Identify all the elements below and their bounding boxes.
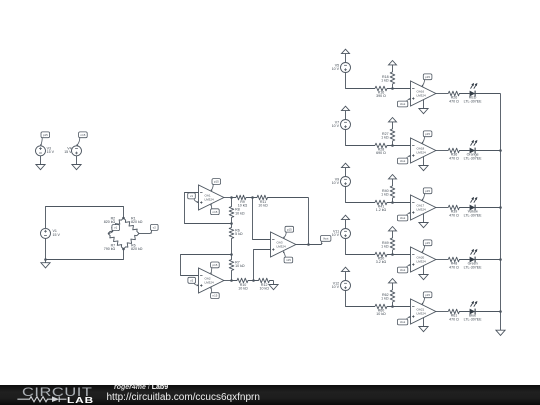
- resistor R50 channel 4: [375, 252, 393, 257]
- svg-text:Vout: Vout: [323, 237, 329, 241]
- svg-text:10 V: 10 V: [332, 285, 340, 289]
- footer metadata user / project: [114, 384, 168, 391]
- wire node to op-amp channel 3: [393, 202, 411, 204]
- svg-text:690 Ω: 690 Ω: [376, 151, 386, 155]
- op-amp OA20 LM324 channel 4: [411, 247, 436, 272]
- net flag arrow above source V12: [342, 267, 350, 271]
- svg-text:Vout: Vout: [400, 216, 406, 220]
- svg-text:p15: p15: [214, 180, 219, 184]
- wire to ground: [45, 260, 47, 263]
- net flag p15 on OA3: [285, 226, 294, 232]
- wire op-amp to ground channel 5: [423, 318, 425, 327]
- svg-text:470 Ω: 470 Ω: [449, 265, 459, 269]
- svg-text:390 Ω: 390 Ω: [376, 94, 386, 98]
- junction OA1 out: [230, 196, 233, 199]
- wire arrow to V12: [345, 272, 347, 281]
- junction OA1 feedback: [230, 222, 233, 225]
- voltage source V4 (-15V supply): [72, 146, 82, 156]
- svg-text:v1: v1: [190, 194, 193, 198]
- junction input node channel 3: [391, 201, 394, 204]
- CircuitLab logo text CIRCUIT: [22, 385, 92, 399]
- wire V5 to resistor R16: [346, 73, 376, 89]
- net flag p15 on OA21: [423, 292, 432, 298]
- net flag v2 at bridge right node: [151, 224, 159, 230]
- svg-text:10 V: 10 V: [332, 233, 340, 237]
- wire LED to bus channel 1: [475, 93, 501, 95]
- net flag arrow above R49: [389, 227, 397, 231]
- wire node to op-amp channel 5: [393, 306, 411, 308]
- svg-text:v1: v1: [114, 226, 117, 230]
- resistor R61 channel 5: [448, 309, 469, 314]
- svg-text:p15: p15: [287, 227, 292, 231]
- op-amp OA2 LM324: [199, 268, 224, 293]
- resistor R7 bridge bottom-left: [108, 234, 124, 250]
- svg-text:LM324: LM324: [417, 311, 427, 315]
- svg-text:820 kΩ: 820 kΩ: [131, 247, 143, 251]
- wire op-amp out to R26: [436, 93, 448, 95]
- wire R11 to OA3 output node: [308, 198, 310, 245]
- wire op-amp to ground channel 2: [423, 157, 425, 166]
- ground below OA16: [419, 109, 428, 114]
- svg-text:p15: p15: [425, 293, 430, 297]
- svg-text:p15: p15: [425, 189, 430, 193]
- svg-text:10 kΩ: 10 kΩ: [259, 287, 269, 291]
- svg-text:LTL-307EE: LTL-307EE: [464, 156, 483, 160]
- svg-text:v2: v2: [190, 278, 193, 282]
- ground for V3: [36, 165, 45, 170]
- voltage source V5 10V channel 1: [341, 63, 351, 73]
- svg-text:n15: n15: [212, 294, 217, 298]
- svg-text:LTL-307EE: LTL-307EE: [464, 99, 483, 103]
- svg-text:470 Ω: 470 Ω: [449, 156, 459, 160]
- wire op-amp to ground channel 3: [423, 214, 425, 223]
- junction input node channel 4: [391, 253, 394, 256]
- svg-text:10 V: 10 V: [332, 67, 340, 71]
- junction bus row 3: [499, 206, 502, 209]
- resistor R62 channel 5: [390, 283, 395, 307]
- svg-text:1 kΩ: 1 kΩ: [381, 245, 389, 249]
- net flag v2 to OA2 + input: [188, 277, 196, 283]
- net flag p15 on OA20: [423, 240, 432, 246]
- svg-text:470 Ω: 470 Ω: [449, 317, 459, 321]
- wire LED to bus channel 2: [475, 150, 501, 152]
- LED RED LTL-307EE channel 1: [470, 91, 476, 97]
- ground below OA18: [419, 166, 428, 171]
- net flag arrow above source V9: [342, 163, 350, 167]
- wire OA3 output: [296, 244, 322, 246]
- resistor R26 channel 1: [448, 91, 469, 96]
- net flag arrow above source V11: [342, 215, 350, 219]
- wire arrow to V9: [345, 168, 347, 177]
- junction bus row 4: [499, 258, 502, 261]
- ground for V4: [72, 165, 81, 170]
- svg-text:10 kΩ: 10 kΩ: [238, 287, 248, 291]
- net flag arrow above source V7: [342, 106, 350, 110]
- LED Blue LTL-307EE channel 5: [470, 309, 476, 315]
- op-amp OA3 LM324: [271, 232, 296, 257]
- junction input node channel 1: [391, 87, 394, 90]
- junction R10-R12: [252, 279, 255, 282]
- svg-text:LTL-307EE: LTL-307EE: [464, 213, 483, 217]
- op-amp OA16 LM324 channel 1: [411, 81, 436, 106]
- resistor R39 channel 3: [448, 205, 469, 210]
- wire V1+ to bridge top: [46, 207, 124, 229]
- resistor R6 vertical: [229, 224, 234, 255]
- resistor R9: [232, 195, 253, 200]
- junction bus row 2: [499, 149, 502, 152]
- svg-text:5 kΩ: 5 kΩ: [235, 232, 243, 236]
- voltage source V7 10V channel 2: [341, 120, 351, 130]
- resistor R27 channel 2: [390, 122, 395, 146]
- net flag arrow above R18: [389, 61, 397, 65]
- net flag Vout to OA17 + input: [397, 215, 407, 221]
- wire V12 to resistor R60: [346, 291, 376, 307]
- ground at bus bottom: [496, 330, 505, 335]
- wire OA1 feedback: [185, 193, 232, 224]
- svg-text:Vout: Vout: [400, 320, 406, 324]
- svg-text:v2: v2: [153, 226, 156, 230]
- resistor R49 channel 4: [390, 231, 395, 255]
- resistor R18 channel 1: [390, 65, 395, 89]
- resistor R7 vertical: [229, 255, 234, 281]
- wire V7 to resistor R28: [346, 130, 376, 146]
- LED Yellow LTL-307EE channel 3: [470, 205, 476, 211]
- junction at V1 ground: [44, 258, 47, 261]
- voltage source V9 10V channel 3: [341, 177, 351, 187]
- resistor R12: [254, 278, 274, 283]
- junction bus row 5: [499, 310, 502, 313]
- svg-text:820 kΩ: 820 kΩ: [131, 220, 143, 224]
- wire LED to bus channel 5: [475, 311, 501, 313]
- svg-text:LM324: LM324: [277, 244, 287, 248]
- resistor R60 channel 5: [375, 304, 393, 309]
- svg-text:LTL-307EE: LTL-307EE: [464, 265, 483, 269]
- net flag p15 on OA17: [423, 188, 432, 194]
- svg-text:1 kΩ: 1 kΩ: [381, 297, 389, 301]
- wire node to op-amp channel 4: [393, 254, 411, 256]
- wire arrow to V5: [345, 54, 347, 63]
- svg-text:10 kΩ: 10 kΩ: [235, 264, 245, 268]
- junction mid chain: [230, 253, 233, 256]
- net flag p15 on OA1: [212, 179, 221, 185]
- svg-text:LM324: LM324: [417, 207, 427, 211]
- net flag Vout on OA3 output: [321, 236, 331, 242]
- CircuitLab logo text LAB: [67, 396, 94, 405]
- net flag Vout to OA21 + input: [397, 319, 407, 325]
- wire node to op-amp channel 1: [393, 88, 411, 90]
- svg-text:10 V: 10 V: [332, 181, 340, 185]
- wire op-amp out to R48: [436, 259, 448, 261]
- op-amp OA1 LM324: [199, 185, 224, 210]
- wire V1- to bridge bottom: [46, 238, 124, 259]
- net flag Vout to OA16 + input: [397, 101, 407, 107]
- junction input node channel 5: [391, 305, 394, 308]
- ground below OA17: [419, 223, 428, 228]
- ground below OA21: [419, 327, 428, 332]
- svg-text:1 kΩ: 1 kΩ: [381, 136, 389, 140]
- net flag Vout to OA18 + input: [397, 158, 407, 164]
- resistor R1 bridge top-right: [124, 218, 140, 234]
- svg-text:LM324: LM324: [417, 259, 427, 263]
- svg-text:p15: p15: [425, 75, 430, 79]
- svg-text:n15: n15: [80, 133, 85, 137]
- LED Orange LTL-307EE channel 2: [470, 148, 476, 154]
- net flag n15 on OA3: [284, 257, 293, 263]
- wire LED to bus channel 4: [475, 259, 501, 261]
- junction R9-R11: [251, 196, 254, 199]
- svg-text:p15: p15: [43, 133, 48, 137]
- LED Green LTL-307EE channel 4: [470, 257, 476, 263]
- resistor R11: [253, 195, 309, 200]
- net flag n15 on OA2: [211, 293, 220, 299]
- logo resistor and diode glyph: [0, 385, 110, 405]
- resistor R28 channel 2: [375, 143, 393, 148]
- footer metadata url: [107, 392, 260, 403]
- footer bar: [0, 385, 540, 405]
- net flag arrow above R62: [389, 279, 397, 283]
- wire bridge right node: [139, 233, 150, 235]
- wire OA2 feedback: [181, 255, 232, 276]
- wire OA1 output: [224, 197, 232, 199]
- svg-text:10 kΩ: 10 kΩ: [258, 204, 268, 208]
- resistor R48 channel 4: [448, 257, 469, 262]
- wire OA2 output: [224, 280, 232, 282]
- wire op-amp out to R39: [436, 207, 448, 209]
- wire op-amp out to R36: [436, 150, 448, 152]
- svg-text:820 kΩ: 820 kΩ: [104, 220, 116, 224]
- svg-text:15 V: 15 V: [47, 150, 55, 154]
- wire V11 to resistor R50: [346, 239, 376, 255]
- op-amp OA21 LM324 channel 5: [411, 299, 436, 324]
- svg-text:1 kΩ: 1 kΩ: [381, 193, 389, 197]
- voltage source V3 (+15V supply): [36, 146, 46, 156]
- svg-text:p15: p15: [425, 241, 430, 245]
- svg-text:1 kΩ: 1 kΩ: [381, 79, 389, 83]
- junction bridge top: [122, 217, 125, 220]
- net flag arrow above R27: [389, 118, 397, 122]
- voltage source V11 10V channel 4: [341, 229, 351, 239]
- resistor R10: [232, 278, 254, 283]
- junction input node channel 2: [391, 144, 394, 147]
- svg-text:LM324: LM324: [205, 197, 215, 201]
- wire op-amp out to R61: [436, 311, 448, 313]
- ground at V1: [41, 263, 50, 268]
- net flag p15 on OA2: [211, 262, 220, 268]
- junction OA3 out: [307, 243, 310, 246]
- net flag p15 on V3: [41, 132, 50, 138]
- svg-text:LM324: LM324: [417, 93, 427, 97]
- junction OA2 out: [230, 279, 233, 282]
- svg-text:470 Ω: 470 Ω: [449, 99, 459, 103]
- net flag Vout to OA20 + input: [397, 267, 407, 273]
- ground below OA20: [419, 275, 428, 280]
- svg-text:10 kΩ: 10 kΩ: [235, 211, 245, 215]
- svg-text:15 V: 15 V: [64, 150, 72, 154]
- resistor R8 vertical: [229, 198, 234, 224]
- wire op-amp to ground channel 1: [423, 100, 425, 109]
- net flag v1 at bridge left node: [112, 225, 120, 231]
- wire arrow to V11: [345, 220, 347, 229]
- svg-text:15 V: 15 V: [53, 233, 61, 237]
- resistor R6 bridge bottom-right: [124, 234, 140, 250]
- svg-text:3.2 kΩ: 3.2 kΩ: [376, 260, 387, 264]
- svg-text:Vout: Vout: [400, 159, 406, 163]
- wire LED to bus channel 3: [475, 207, 501, 209]
- resistor R41 channel 3: [375, 200, 393, 205]
- wire op-amp to ground channel 4: [423, 266, 425, 275]
- net flag p15 on OA18: [423, 131, 432, 137]
- svg-text:p15: p15: [425, 132, 430, 136]
- svg-text:n15: n15: [286, 258, 291, 262]
- svg-text:10 kΩ: 10 kΩ: [376, 312, 386, 316]
- op-amp OA18 LM324 channel 2: [411, 138, 436, 163]
- svg-text:Vout: Vout: [400, 102, 406, 106]
- wire OA3 - input: [253, 198, 271, 240]
- svg-text:790 kΩ: 790 kΩ: [104, 247, 116, 251]
- svg-text:p15: p15: [212, 263, 217, 267]
- svg-text:n15: n15: [212, 210, 217, 214]
- wire R12 to ground: [273, 281, 275, 285]
- resistor R36 channel 2: [448, 148, 469, 153]
- wire OA3 + input: [254, 250, 271, 281]
- svg-text:Vout: Vout: [400, 268, 406, 272]
- wire V9 to resistor R41: [346, 187, 376, 203]
- resistor R40 channel 3: [390, 179, 395, 203]
- wire arrow to V7: [345, 111, 347, 120]
- net flag arrow above source V5: [342, 49, 350, 53]
- resistor R16 channel 1: [375, 86, 393, 91]
- net flag n15 on OA1: [211, 209, 220, 215]
- net flag v1 to OA1 + input: [188, 193, 196, 199]
- net flag arrow above R40: [389, 175, 397, 179]
- voltage source V12 10V channel 5: [341, 281, 351, 291]
- net flag n15 on V4: [79, 132, 88, 138]
- net flag p15 on OA16: [423, 74, 432, 80]
- svg-text:470 Ω: 470 Ω: [449, 213, 459, 217]
- svg-text:LM324: LM324: [417, 150, 427, 154]
- wire node to op-amp channel 2: [393, 145, 411, 147]
- svg-text:1.2 kΩ: 1.2 kΩ: [376, 208, 387, 212]
- svg-text:10 V: 10 V: [332, 124, 340, 128]
- svg-text:LTL-307EE: LTL-307EE: [464, 317, 483, 321]
- resistor R2 bridge top-left: [108, 218, 124, 234]
- wire V4 to ground: [76, 156, 78, 165]
- voltage source V1 15V: [41, 228, 51, 238]
- op-amp OA17 LM324 channel 3: [411, 195, 436, 220]
- junction bridge bottom: [122, 248, 125, 251]
- wire V3 to ground: [40, 156, 42, 165]
- ground after R12: [269, 285, 278, 290]
- svg-text:LM324: LM324: [205, 280, 215, 284]
- bus wire to ground: [500, 94, 502, 331]
